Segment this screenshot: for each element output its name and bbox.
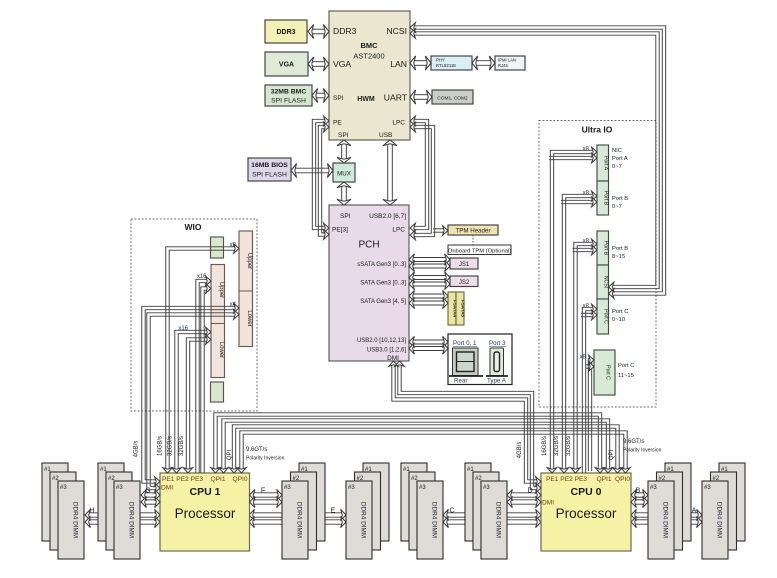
svg-text:QPI0: QPI0 [615,476,630,483]
DIMM E card #1 [363,463,389,541]
Ultra IO Port B connector 8-15 [597,231,609,265]
wire VGA to BMC [308,57,329,71]
svg-text:Processor: Processor [556,506,617,521]
svg-text:Port C: Port C [605,365,611,380]
wire DDR3 to BMC [308,25,329,39]
svg-text:PE: PE [333,120,342,127]
DIMM F card #3 [282,481,308,559]
svg-text:#3: #3 [116,485,123,491]
svg-text:HWM: HWM [357,96,375,103]
wire BMC NCSI to Ultra IO NCSI first [410,23,666,299]
wire channel F [250,489,283,500]
PHY RTL8211E box [431,56,472,70]
svg-text:IPMI LAN: IPMI LAN [498,58,516,63]
wire BMC PE to PCH PE3 first [312,116,329,233]
wire SPI flash to BMC [312,89,329,103]
DIMM B card #1 [665,463,691,541]
USB rear ports box [448,334,512,385]
wire x8 Port A to CPU0 PE1 [547,147,597,473]
DIMM A card #2 [711,472,737,550]
DIMM G card #2 [106,472,132,550]
svg-text:Upper: Upper [218,282,224,298]
svg-text:32MB BMC: 32MB BMC [271,89,307,96]
svg-text:Lower: Lower [246,310,252,326]
svg-text:DDR4 DIMM: DDR4 DIMM [360,502,367,538]
DIMM H card #1 [42,463,68,541]
svg-text:F: F [261,488,265,495]
svg-text:QPI1: QPI1 [210,476,225,483]
svg-text:#3: #3 [348,485,355,491]
DIMM F card #1 [299,463,325,541]
wire BMC LPC to PCH LPC first [410,116,429,233]
wire x8 Port C 0-10 second stub [581,310,597,320]
Ultra IO dashed container [539,121,656,408]
svg-text:PCH: PCH [358,240,379,251]
svg-text:DMI: DMI [542,500,554,507]
svg-text:Rear: Rear [454,378,467,385]
svg-text:A: A [692,508,697,515]
wire x16 WIO middle lower to CPU1 PE2 [172,327,211,473]
svg-text:32GB/s: 32GB/s [168,436,174,456]
wire channel B second [631,496,648,507]
svg-text:E: E [331,508,336,515]
wire LPC to TPM header [433,226,448,236]
wire QPI0 link b [237,431,631,473]
svg-text:#3: #3 [60,485,67,491]
wire channel F second [250,496,283,507]
svg-text:DDR4 DIMM: DDR4 DIMM [128,502,135,538]
svg-text:11~15: 11~15 [618,373,634,379]
svg-text:DDR4 DIMM: DDR4 DIMM [72,502,79,538]
wire PCH sSATA to JS1 a [409,254,450,265]
svg-text:Port A: Port A [612,156,628,162]
svg-text:USB2.0 [10,12,13]: USB2.0 [10,12,13] [357,338,406,344]
VGA box [265,52,308,76]
svg-text:USB3.0 [1,2,6]: USB3.0 [1,2,6] [367,348,406,354]
wire QPI0 link a [229,425,622,473]
svg-text:G: G [145,488,150,495]
svg-text:LAN: LAN [390,59,407,69]
svg-text:Port B: Port B [603,191,609,206]
Ultra IO Port C connector 0-10 [597,299,609,334]
DIMM H card #2 [50,472,76,550]
TPM header box [448,225,498,235]
svg-text:CPU 0: CPU 0 [571,486,602,498]
wire x16 WIO middle upper b [201,284,211,473]
svg-text:9.6GT/s: 9.6GT/s [623,439,644,445]
svg-text:B: B [636,488,641,495]
wire BMC USB to PCH USB [383,140,397,205]
svg-text:Port A: Port A [603,156,609,171]
wire channel D second [507,496,541,507]
svg-text:DDR3: DDR3 [333,26,357,36]
svg-text:Polarity Inversion: Polarity Inversion [246,456,285,462]
wire PCH USB to rear ports b [409,343,448,354]
svg-text:PE1 PE2 PE3: PE1 PE2 PE3 [162,476,203,483]
wire x8 Port B second stub [561,197,597,207]
svg-text:Processor: Processor [175,506,236,521]
svg-text:sSATA Gen3 [0..3]: sSATA Gen3 [0..3] [357,262,406,268]
svg-text:Ultra IO: Ultra IO [582,125,613,135]
Ultra IO Port A connector [597,145,609,181]
svg-text:SPI: SPI [338,132,349,139]
svg-text:DDR4 DIMM: DDR4 DIMM [296,502,303,538]
svg-text:SATA Gen3 [0..3]: SATA Gen3 [0..3] [360,281,406,287]
svg-text:TPM Header: TPM Header [455,228,490,235]
svg-text:JS2: JS2 [459,280,470,286]
wire x16 WIO middle upper a [196,276,211,473]
svg-text:x16: x16 [178,326,188,332]
svg-text:Port C: Port C [618,363,634,369]
wire x8 Port B to CPU0 PE2 [559,191,597,473]
WIO right riser split [239,290,253,292]
wire channel C (CPU0 to DIMM C) [443,509,541,520]
wire BMC NCSI to Ultra IO NCSI second [410,29,659,292]
svg-text:DDR4 DIMM: DDR4 DIMM [431,502,438,538]
DIMM C card #3 [417,481,443,559]
Onboard TPM optional box [448,245,511,255]
svg-text:x8: x8 [583,147,590,153]
wire PCH USB to rear ports a [409,336,448,347]
32MB BMC SPI flash box [265,85,312,106]
svg-text:Port 0, 1: Port 0, 1 [453,340,477,347]
DIMM D card #3 [481,481,507,559]
wire PCH SATA45 to I-SATA b [409,297,448,308]
svg-text:SATA Gen3 [4, 5]: SATA Gen3 [4, 5] [360,299,406,305]
svg-text:#3: #3 [284,485,291,491]
wire channel G second [141,496,160,507]
svg-text:C: C [449,508,454,515]
svg-text:MUX: MUX [337,171,351,178]
svg-text:SPI FLASH: SPI FLASH [252,172,287,179]
wire channel A (CPU0 to DIMM A) [631,509,702,520]
WIO green connector top [211,237,224,258]
wire QPI1 link a [211,413,605,473]
svg-text:NIC: NIC [612,148,622,154]
svg-text:PHY: PHY [436,58,445,63]
wire channel H second [85,516,160,527]
DIMM G card #3 [114,481,140,559]
IPMI LAN RJ45 box [495,56,525,70]
svg-text:SPI: SPI [333,95,344,102]
wire channel E second [249,516,346,527]
svg-text:0~7: 0~7 [612,164,622,170]
underline Port 0 1 [453,346,477,348]
svg-text:RTL8211E: RTL8211E [436,63,456,68]
svg-text:UART: UART [384,93,408,103]
svg-text:Lower: Lower [218,342,224,358]
DIMM B card #3 [648,481,674,559]
svg-text:COM1, COM2: COM1, COM2 [437,96,468,102]
DIMM C card #2 [409,472,435,550]
JS2 connector box [450,276,478,287]
Ultra IO NCSI connector [597,265,609,299]
USB port 0 1 drawing [449,348,483,376]
svg-text:NCSI: NCSI [603,276,609,288]
svg-text:0~7: 0~7 [612,204,622,210]
16MB BIOS SPI flash box [248,158,291,181]
svg-text:NCSI: NCSI [386,26,407,36]
svg-text:VGA: VGA [333,59,351,69]
svg-text:#3: #3 [704,485,711,491]
DIMM E card #3 [346,481,372,559]
svg-text:x8: x8 [583,304,590,310]
WIO right riser box [239,231,253,347]
svg-text:USB2.0 [6,7]: USB2.0 [6,7] [369,213,406,220]
WIO dashed container [131,219,257,411]
svg-text:LPC: LPC [392,227,405,234]
wire channel A second [631,516,702,527]
wire channel H (CPU1 to DIMM H) [85,509,160,520]
wire x8 Port B 8-15 to CPU0 PE3 [571,239,597,473]
svg-text:DDR4 DIMM: DDR4 DIMM [716,502,723,538]
svg-text:#3: #3 [483,485,490,491]
wire channel E (CPU1 to DIMM E) [249,509,346,520]
wire BIOS flash to MUX [291,164,333,178]
wire channel D [507,489,541,500]
USB port 3 type A drawing [486,348,508,376]
svg-text:JS1: JS1 [459,262,470,268]
svg-text:16GB/s: 16GB/s [542,436,548,456]
svg-text:0~10: 0~10 [612,317,625,323]
svg-text:DDR4 DIMM: DDR4 DIMM [495,502,502,538]
svg-text:Port B: Port B [612,246,628,252]
svg-text:4GB/s: 4GB/s [517,442,523,459]
wire MUX to PCH SPI [337,182,351,205]
CPU1 processor [160,473,250,551]
svg-text:USB: USB [379,132,392,139]
wire PHY to RJ45 [472,56,495,70]
wire BMC LPC to PCH LPC second [410,122,435,240]
svg-text:32GB/s: 32GB/s [179,436,185,456]
svg-text:x8: x8 [230,243,237,249]
svg-text:QPI: QPI [609,450,615,461]
BMC AST2400 chip [329,11,410,140]
svg-text:QPI1: QPI1 [596,476,611,483]
wire x4 WIO lower to CPU1 a [142,303,239,486]
wire x8 WIO upper to CPU1 PE1 [163,244,239,473]
DIMM H card #3 [58,481,84,559]
svg-text:x8: x8 [583,239,590,245]
svg-text:PE1 PE2 PE3: PE1 PE2 PE3 [546,476,587,483]
svg-text:Onboard TPM (Optional): Onboard TPM (Optional) [448,249,511,255]
svg-text:32GB/s: 32GB/s [554,436,560,456]
wire x8 Port C 11-15 to CPU0 [588,355,594,471]
svg-text:4GB/s: 4GB/s [134,441,140,458]
svg-text:LPC: LPC [392,120,405,127]
wire BMC PE to PCH PE3 second [318,122,329,239]
svg-text:SPI FLASH: SPI FLASH [271,98,306,105]
underline Port 3 [489,346,506,348]
svg-text:QPI: QPI [227,450,233,461]
svg-text:Port 3: Port 3 [489,340,506,347]
Ultra IO Port C connector 11-15 [594,350,615,395]
svg-text:32GB/s: 32GB/s [566,436,572,456]
WIO middle riser split [211,323,225,325]
svg-text:SPI: SPI [340,213,351,220]
WIO green connector bottom [211,382,224,402]
svg-text:PE[3]: PE[3] [332,227,348,234]
COM1 COM2 box [432,90,473,104]
wire BMC LAN to PHY [410,56,431,70]
svg-text:16MB BIOS: 16MB BIOS [251,162,288,169]
wire PCH DMI to CPU0 first [389,361,541,486]
wire QPI1 link b [219,419,613,473]
wire x16 WIO middle lower to CPU1 PE3 [183,335,211,473]
wire PCH SATA to JS2 a [409,272,450,283]
wire channel C second [443,516,541,527]
svg-text:Type A: Type A [487,378,507,385]
svg-text:DMI: DMI [161,485,173,492]
svg-text:Port C: Port C [612,309,628,315]
svg-text:DDR3: DDR3 [276,29,295,36]
svg-text:WIO: WIO [185,222,202,232]
wire channel B [631,489,648,500]
PCH chip [329,205,409,361]
svg-text:x16: x16 [197,274,207,280]
svg-text:Upper: Upper [246,253,252,269]
svg-text:#3: #3 [650,485,657,491]
wire BMC SPI to MUX [337,140,351,163]
svg-text:x8: x8 [580,355,587,361]
wire PCH DMI to CPU0 second [395,361,541,493]
svg-text:#3: #3 [419,485,426,491]
wire x8 Port C 0-10 to CPU0 [582,304,597,473]
dotted link TPM header to onboard TPM [472,235,474,245]
wire x8 Port C 11-15 second stub [586,362,594,372]
wire x8 Port A second stub [549,153,597,163]
DIMM F card #2 [291,472,317,550]
svg-text:Polarity Inversion: Polarity Inversion [623,448,662,454]
I-SATA4 connector [448,292,456,325]
svg-text:BMC: BMC [360,41,378,50]
DIMM B card #2 [657,472,683,550]
svg-text:Port B: Port B [603,241,609,256]
DIMM E card #2 [355,472,381,550]
svg-text:VGA: VGA [279,62,294,69]
svg-text:x8: x8 [583,191,590,197]
DDR3 memory box [265,20,307,43]
svg-text:16GB/s: 16GB/s [158,436,164,456]
svg-text:I-SATA5: I-SATA5 [461,300,466,318]
svg-text:D: D [527,488,532,495]
wire PCH SATA45 to I-SATA a [409,290,448,301]
svg-text:AST2400: AST2400 [353,52,384,61]
DIMM A card #1 [719,463,745,541]
DIMM D card #2 [473,472,499,550]
DIMM A card #3 [702,481,728,559]
wire PCH SATA to JS2 b [409,278,450,289]
wire channel G [141,489,160,500]
svg-text:RJ45: RJ45 [498,63,508,68]
wire PCH sSATA to JS1 b [409,260,450,271]
DIMM G card #1 [98,463,124,541]
DIMM C card #1 [401,463,427,541]
svg-text:Port C: Port C [603,309,609,324]
Ultra IO Port B connector 0-7 [597,181,609,215]
svg-text:H: H [89,508,94,515]
wire BMC UART to COM [410,90,432,104]
svg-text:8~15: 8~15 [612,254,625,260]
svg-text:CPU 1: CPU 1 [190,486,221,498]
svg-text:DDR4 DIMM: DDR4 DIMM [662,502,669,538]
MUX box [333,163,355,182]
svg-text:9.6GT/s: 9.6GT/s [246,447,267,453]
WIO middle riser box [211,265,225,378]
svg-text:x4: x4 [230,302,237,308]
svg-text:QPI0: QPI0 [232,476,247,483]
JS1 connector box [450,258,478,269]
wire x8 Port B 8-15 second stub [573,245,598,255]
I-SATA5 connector [456,292,464,325]
wire x4 WIO lower to CPU1 b [147,310,239,493]
DIMM D card #1 [465,463,491,541]
CPU0 processor [541,473,631,551]
svg-text:Port B: Port B [612,196,628,202]
